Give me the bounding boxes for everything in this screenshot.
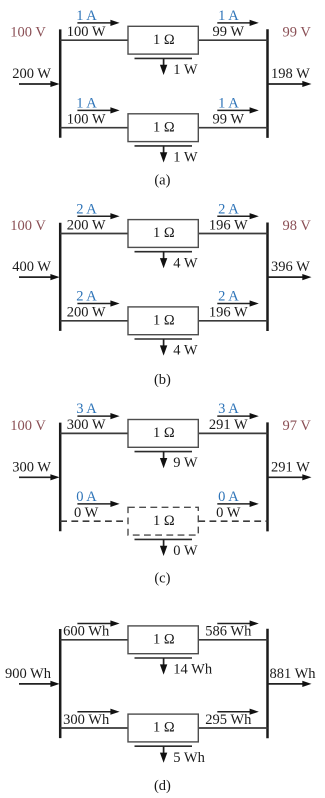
current-direction arrow out of R8 (right) — [217, 711, 251, 713]
svg-text:1 W: 1 W — [173, 150, 198, 166]
dissipated power tap line under R7 — [135, 657, 193, 659]
wire: left bus to resistor R1 — [60, 39, 128, 41]
current-direction arrow out of R5 (right) — [217, 415, 251, 417]
wire: left bus to resistor R7 — [60, 639, 128, 641]
svg-text:1 Ω: 1 Ω — [153, 225, 175, 241]
svg-text:1 W: 1 W — [173, 62, 198, 78]
current-direction arrow into R3 (left) — [77, 215, 112, 217]
svg-text:300 W: 300 W — [67, 417, 106, 433]
current-direction arrow out of R6 (open / dashed) (right) — [217, 503, 251, 505]
svg-text:(b): (b) — [154, 372, 171, 388]
svg-text:5 Wh: 5 Wh — [173, 750, 205, 766]
svg-text:99 V: 99 V — [283, 25, 312, 41]
svg-text:99 W: 99 W — [213, 24, 245, 40]
svg-text:396 W: 396 W — [271, 259, 310, 275]
svg-text:295 Wh: 295 Wh — [205, 712, 252, 728]
wire: left bus to resistor R6 (open / dashed) — [60, 520, 128, 522]
down arrow: power dissipated in R8 — [163, 746, 165, 754]
current-direction arrow into R1 (left) — [77, 22, 112, 24]
svg-text:1 A: 1 A — [76, 8, 97, 24]
dissipated power tap line under R2 — [135, 145, 193, 147]
svg-text:400 W: 400 W — [12, 259, 51, 275]
left bus bar — [59, 423, 62, 532]
svg-text:1 Ω: 1 Ω — [153, 425, 175, 441]
svg-text:200 W: 200 W — [67, 305, 106, 321]
svg-text:2 A: 2 A — [76, 201, 97, 217]
svg-text:1 Ω: 1 Ω — [153, 631, 175, 647]
down arrow: power dissipated in R2 — [163, 146, 165, 154]
svg-text:2 A: 2 A — [76, 289, 97, 305]
right bus bar — [266, 422, 269, 531]
svg-text:1 Ω: 1 Ω — [153, 32, 175, 48]
wire: resistor R3 to right bus — [198, 233, 267, 235]
right bus bar — [266, 629, 269, 738]
current-direction arrow into R6 (open / dashed) (left) — [77, 503, 112, 505]
svg-text:100 V: 100 V — [10, 25, 46, 41]
svg-text:881 Wh: 881 Wh — [270, 666, 317, 682]
svg-text:0 A: 0 A — [76, 489, 97, 505]
svg-text:100 W: 100 W — [67, 24, 106, 40]
input arrow into left bus (200 W) — [19, 83, 52, 85]
current-direction arrow into R2 (left) — [77, 109, 112, 111]
svg-text:291 W: 291 W — [209, 417, 248, 433]
svg-text:1 A: 1 A — [218, 96, 239, 112]
down arrow: power dissipated in R3 — [163, 252, 165, 260]
current-direction arrow out of R3 (right) — [217, 215, 251, 217]
down arrow: power dissipated in R7 — [163, 658, 165, 666]
wire: left bus to resistor R2 — [60, 127, 128, 129]
dissipated power tap line under R3 — [135, 251, 193, 253]
input arrow into left bus (900 Wh) — [19, 683, 52, 685]
output arrow from right bus (396 W) — [268, 276, 304, 278]
left bus bar — [59, 629, 62, 738]
wire: resistor R1 to right bus — [198, 39, 267, 41]
current-direction arrow out of R2 (right) — [217, 109, 251, 111]
svg-text:291 W: 291 W — [271, 459, 310, 475]
wire: resistor R6 (open / dashed) to right bus — [198, 520, 267, 522]
svg-text:100 V: 100 V — [10, 418, 46, 434]
current-direction arrow into R4 (left) — [77, 303, 112, 305]
resistor R4 box 1 ohm — [128, 307, 198, 335]
resistor R8 box 1 ohm — [128, 714, 198, 742]
svg-text:4 W: 4 W — [173, 343, 198, 359]
resistor R7 box 1 ohm — [128, 626, 198, 654]
svg-text:(c): (c) — [154, 571, 170, 587]
wire: left bus to resistor R8 — [60, 727, 128, 729]
svg-text:600 Wh: 600 Wh — [63, 624, 110, 640]
dissipated power tap line under R1 — [135, 57, 193, 59]
svg-text:198 W: 198 W — [271, 66, 310, 82]
svg-text:200 W: 200 W — [67, 217, 106, 233]
wire: left bus to resistor R5 — [60, 432, 128, 434]
dissipated power tap line under R6 (open / dashed) — [135, 538, 193, 540]
input arrow into left bus (300 W) — [19, 476, 52, 478]
svg-text:4 W: 4 W — [173, 255, 198, 271]
resistor R6 (open / dashed) box 1 ohm — [128, 507, 198, 535]
svg-text:1 Ω: 1 Ω — [153, 720, 175, 736]
svg-text:14 Wh: 14 Wh — [173, 662, 213, 678]
svg-text:2 A: 2 A — [218, 289, 239, 305]
svg-text:300 W: 300 W — [12, 459, 51, 475]
svg-text:0 A: 0 A — [218, 489, 239, 505]
current-direction arrow out of R4 (right) — [217, 303, 251, 305]
left bus bar — [59, 223, 62, 331]
svg-text:97 V: 97 V — [283, 418, 312, 434]
svg-text:98 V: 98 V — [283, 218, 312, 234]
svg-text:1 Ω: 1 Ω — [153, 119, 175, 135]
dissipated power tap line under R8 — [135, 745, 193, 747]
svg-text:900 Wh: 900 Wh — [5, 666, 52, 682]
svg-text:300 Wh: 300 Wh — [63, 712, 110, 728]
input arrow into left bus (400 W) — [19, 276, 52, 278]
svg-text:(d): (d) — [154, 778, 171, 794]
right bus bar — [266, 223, 269, 332]
wire: resistor R2 to right bus — [198, 127, 267, 129]
dissipated power tap line under R5 — [135, 451, 193, 453]
svg-text:3 A: 3 A — [76, 401, 97, 417]
output arrow from right bus (198 W) — [268, 83, 304, 85]
wire: left bus to resistor R3 — [60, 233, 128, 235]
down arrow: power dissipated in R4 — [163, 339, 165, 347]
svg-text:1 A: 1 A — [76, 96, 97, 112]
svg-text:100 V: 100 V — [10, 218, 46, 234]
left bus bar — [59, 29, 62, 137]
svg-text:1 A: 1 A — [218, 8, 239, 24]
right bus bar — [266, 29, 269, 138]
wire: resistor R8 to right bus — [198, 727, 267, 729]
svg-text:200 W: 200 W — [12, 66, 51, 82]
current-direction arrow into R7 (left) — [77, 623, 112, 625]
resistor R2 box 1 ohm — [128, 114, 198, 142]
svg-text:2 A: 2 A — [218, 201, 239, 217]
resistor R3 box 1 ohm — [128, 220, 198, 248]
current-direction arrow out of R7 (right) — [217, 623, 251, 625]
svg-text:(a): (a) — [154, 173, 170, 189]
svg-text:586 Wh: 586 Wh — [205, 624, 252, 640]
svg-text:0 W: 0 W — [74, 505, 99, 521]
svg-text:196 W: 196 W — [209, 217, 248, 233]
wire: resistor R4 to right bus — [198, 320, 267, 322]
down arrow: power dissipated in R1 — [163, 58, 165, 66]
svg-text:0 W: 0 W — [173, 543, 198, 559]
svg-text:99 W: 99 W — [213, 112, 245, 128]
down arrow: power dissipated in R6 (open / dashed) — [163, 539, 165, 547]
wire: resistor R7 to right bus — [198, 639, 267, 641]
svg-text:3 A: 3 A — [218, 401, 239, 417]
dissipated power tap line under R4 — [135, 338, 193, 340]
current-direction arrow into R5 (left) — [77, 415, 112, 417]
current-direction arrow into R8 (left) — [77, 711, 112, 713]
current-direction arrow out of R1 (right) — [217, 22, 251, 24]
resistor R5 box 1 ohm — [128, 420, 198, 448]
down arrow: power dissipated in R5 — [163, 452, 165, 460]
svg-text:1 Ω: 1 Ω — [153, 312, 175, 328]
output arrow from right bus (881 Wh) — [268, 683, 304, 685]
wire: resistor R5 to right bus — [198, 432, 267, 434]
wire: left bus to resistor R4 — [60, 320, 128, 322]
resistor R1 box 1 ohm — [128, 26, 198, 54]
output arrow from right bus (291 W) — [268, 476, 304, 478]
svg-text:196 W: 196 W — [209, 305, 248, 321]
svg-text:9 W: 9 W — [173, 455, 198, 471]
svg-text:100 W: 100 W — [67, 112, 106, 128]
svg-text:0 W: 0 W — [216, 505, 241, 521]
svg-text:1 Ω: 1 Ω — [153, 513, 175, 529]
